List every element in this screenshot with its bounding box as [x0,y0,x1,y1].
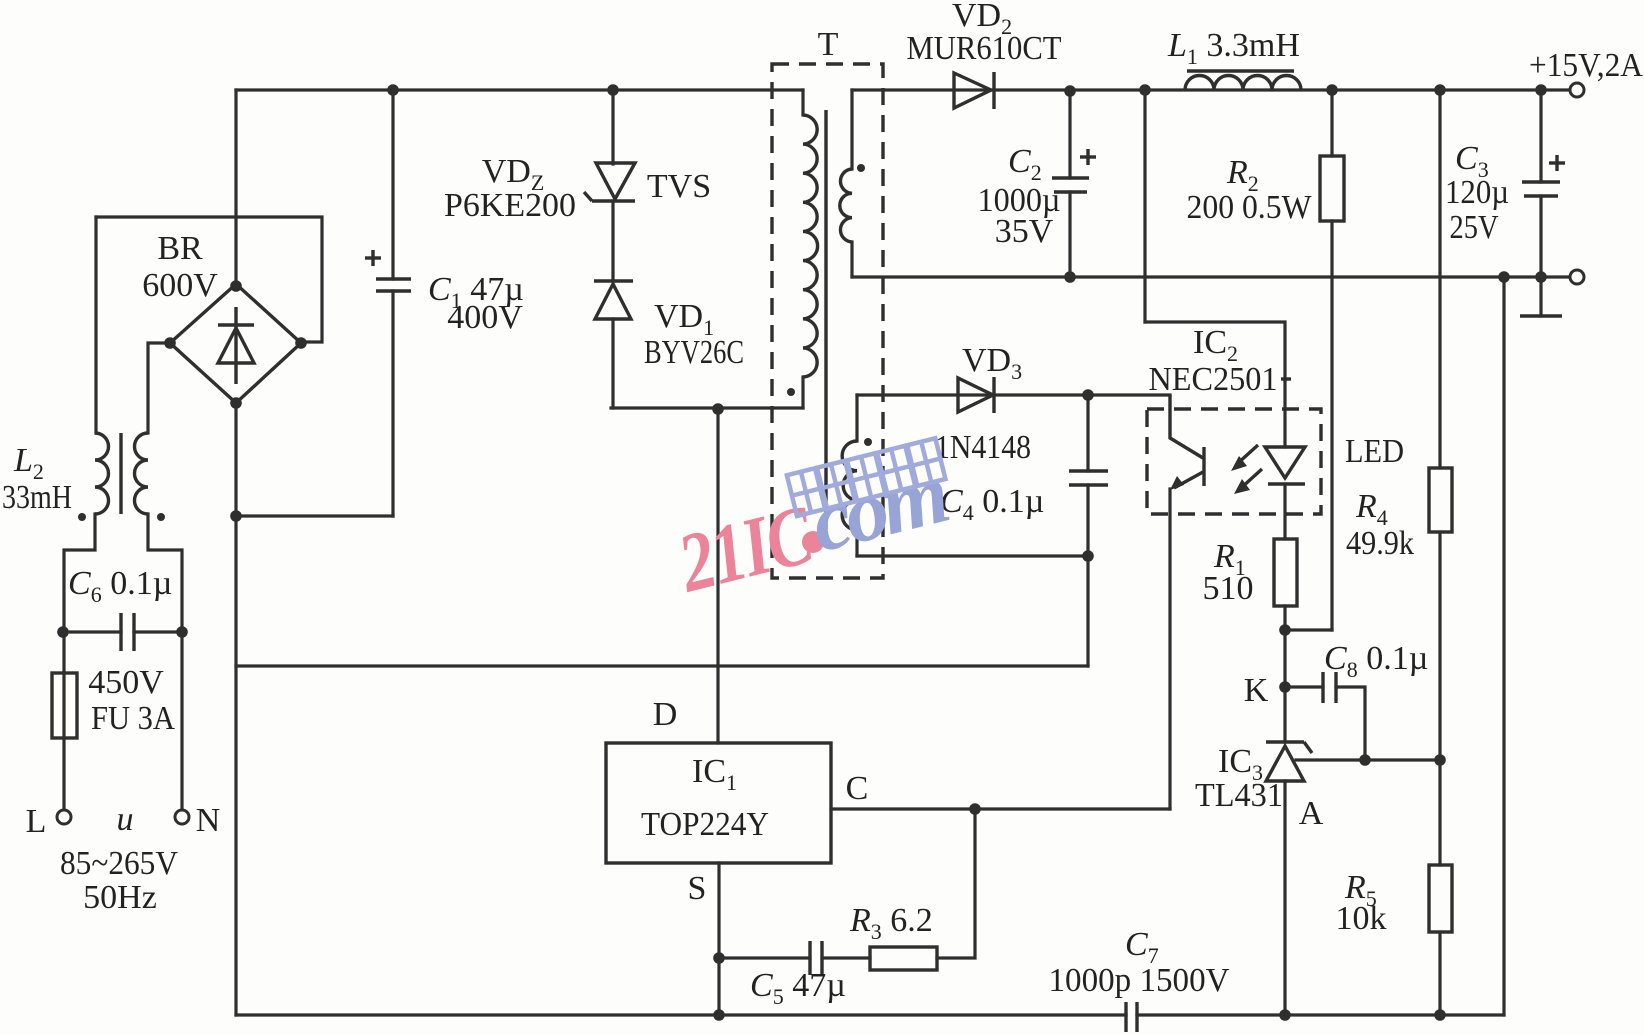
wire: BR left vertex to L2 right winding [148,343,170,433]
transformer dashed box [772,64,883,578]
C3 plus sign [1549,161,1565,164]
wire: C pin line [831,807,1170,810]
ground bar [1520,314,1562,317]
svg-text:1000p 1500V: 1000p 1500V [1049,962,1230,999]
wire: left winding top lead [94,217,97,433]
svg-text:33mH: 33mH [2,479,72,516]
inductor L2 left winding [95,433,109,514]
svg-text:LED: LED [1345,433,1404,470]
svg-text:R3 6.2: R3 6.2 [849,902,933,944]
scan artifact dash after NEC2501 [1281,377,1291,380]
svg-text:NEC2501: NEC2501 [1149,361,1278,398]
svg-text:400V: 400V [447,299,523,336]
terminal +15V [1570,83,1584,97]
node: C2 top [1064,85,1076,97]
svg-text:C4 0.1µ: C4 0.1µ [940,483,1044,525]
node: C6 right [176,626,188,638]
wire: top rail secondary side [852,88,1570,91]
resistor R5 [1438,760,1441,865]
svg-text:P6KE200: P6KE200 [444,187,576,224]
wire: L2 left bottom to L line [64,514,95,810]
svg-text:BYV26C: BYV26C [644,334,744,371]
watermark blue com [801,445,954,571]
wire: S pin [717,863,720,1015]
diode VD1 [594,279,633,282]
resistor R1 [1274,539,1297,606]
wire: bridge AC top wire [96,217,322,342]
svg-text:35V: 35V [995,213,1054,250]
node: VD3-C4 [1082,389,1094,401]
capacitor C1 [391,90,394,279]
IC2 LED [1283,409,1286,447]
bias phase dot [864,438,872,446]
BR inner diode [234,307,237,384]
inductor L1 [1185,76,1301,91]
node: C1 top [387,84,399,96]
wire: C1 bottom link [236,514,393,517]
wire: lower output rail [852,275,1570,278]
C1 plus sign [365,256,381,259]
svg-text:A: A [1299,795,1324,832]
transformer bias winding [855,395,858,441]
node: C1 bottom junction [230,510,242,522]
svg-text:50Hz: 50Hz [83,879,157,916]
capacitor C8 [1285,685,1323,688]
wire: L2 right bottom to N line [148,514,182,810]
fuse FU [52,673,77,738]
node: C3 bottom [1535,271,1547,283]
capacitor C5 [719,956,810,959]
secondary phase dot [857,164,865,172]
diode VD3 [958,378,993,412]
C2 plus sign [1080,155,1096,158]
wire: LED anode jog [1145,322,1285,409]
svg-text:C: C [846,770,869,807]
terminal N [175,810,189,824]
svg-text:R4: R4 [1355,488,1388,530]
svg-text:450V: 450V [88,664,164,701]
node: S-C5 [713,952,725,964]
node: R2 top [1326,84,1338,96]
bridge rectifier BR diamond [170,284,301,403]
wire: D pin vertical [716,409,719,743]
node: drain junction [712,403,724,415]
svg-text:IC1: IC1 [692,753,737,795]
TVS transil VDZ [611,90,614,164]
capacitor C6 [64,630,121,633]
svg-text:85~265V: 85~265V [60,845,178,882]
L2 phase dot right [157,513,165,521]
wire: TL431 ref line [1296,758,1440,761]
optocoupler IC2 dashed box [1147,409,1321,514]
svg-text:TOP224Y: TOP224Y [641,806,769,843]
terminal output minus [1570,270,1584,284]
node: R1 bottom [1279,624,1291,636]
wire: bias bottom lead [857,554,1088,557]
node: TVS top [607,84,619,96]
shunt regulator IC3 TL431 [1266,740,1304,743]
capacitor C2 [1068,90,1071,178]
node: TL431 anode rail [1279,1009,1291,1021]
transformer core [824,110,827,529]
node: R4 top [1434,84,1446,96]
svg-text:10k: 10k [1336,900,1387,937]
svg-text:21IC: 21IC [669,488,823,611]
resistor R3 [870,947,937,970]
svg-text:C6 0.1µ: C6 0.1µ [68,565,172,607]
svg-text:L: L [26,803,47,840]
node: BR bottom vertex [230,397,242,409]
svg-text:L2: L2 [13,442,44,484]
primary phase dot [787,388,795,396]
svg-text:C5 47µ: C5 47µ [750,967,846,1009]
node: L1 left [1139,84,1151,96]
node: BR left vertex [164,337,176,349]
node K [1279,681,1291,693]
svg-text:FU 3A: FU 3A [91,700,175,737]
node: C6 left [57,626,69,638]
node: C8 bottom [1359,754,1371,766]
svg-text:u: u [117,801,134,838]
svg-text:K: K [1244,672,1269,709]
watermark blue CJK [787,438,946,516]
IC1 TOP224Y box [606,743,831,863]
node: riser top [1498,271,1510,283]
svg-text:C8 0.1µ: C8 0.1µ [1324,640,1428,682]
svg-text:510: 510 [1203,570,1254,607]
node: C4 bottom [1082,550,1094,562]
wire: R2 to K jog [1286,628,1332,631]
svg-text:VD3: VD3 [962,342,1022,384]
node: BR top vertex [230,280,242,292]
capacitor C7 [1124,1002,1127,1032]
L2 core line [119,433,122,514]
svg-text:IC2: IC2 [1193,324,1238,366]
wire: LED anode feed vertical [1143,90,1146,322]
svg-text:C2: C2 [1008,143,1042,185]
capacitor C3 [1535,84,1547,96]
wire: VD1 bottom to primary [611,406,803,409]
resistor R4 [1438,90,1441,468]
transformer T primary winding [801,90,804,115]
IC2 light arrows [1237,445,1258,464]
node: C pin junction [969,803,981,815]
diode VD2 [954,73,991,108]
svg-text:T: T [818,26,839,63]
svg-text:200 0.5W: 200 0.5W [1187,189,1313,226]
wire: bottom rail [236,1013,1126,1016]
terminal L [57,810,71,824]
svg-text:D: D [653,696,678,733]
transformer secondary winding [850,90,853,169]
wire: top rail primary side [236,88,803,91]
svg-text:25V: 25V [1450,209,1499,246]
svg-text:L1 3.3mH: L1 3.3mH [1167,27,1300,69]
node: BR right vertex [295,337,307,349]
capacitor C4 [1086,395,1089,471]
node: C2 bottom [1064,271,1076,283]
wire: main left vertical (DC minus) [234,403,237,1015]
svg-text:BR: BR [157,230,203,267]
node: R5 rail [1434,1009,1446,1021]
wire: VD3 line [857,393,1170,396]
inductor L2 right winding [135,433,149,514]
svg-text:TVS: TVS [647,168,711,205]
svg-text:N: N [196,802,221,839]
svg-text:+15V,2A: +15V,2A [1529,47,1643,84]
svg-text:1N4148: 1N4148 [935,429,1031,466]
svg-text:TL431: TL431 [1195,777,1283,814]
svg-text:MUR610CT: MUR610CT [907,30,1062,67]
IC2 phototransistor [1170,395,1203,458]
svg-text:S: S [688,870,707,907]
wire: ground riser [1502,277,1505,1015]
L2 phase dot left [78,513,86,521]
node: ref-R4R5 [1434,754,1446,766]
svg-text:49.9k: 49.9k [1346,525,1414,562]
resistor R2 [1330,90,1333,156]
wire: long return line [236,664,1088,667]
svg-text:600V: 600V [142,267,218,304]
wire: left vertical from top rail to bridge [234,90,237,286]
svg-text:120µ: 120µ [1445,174,1509,211]
node: S-rail [713,1009,725,1021]
watermark red 21IC [669,488,823,611]
